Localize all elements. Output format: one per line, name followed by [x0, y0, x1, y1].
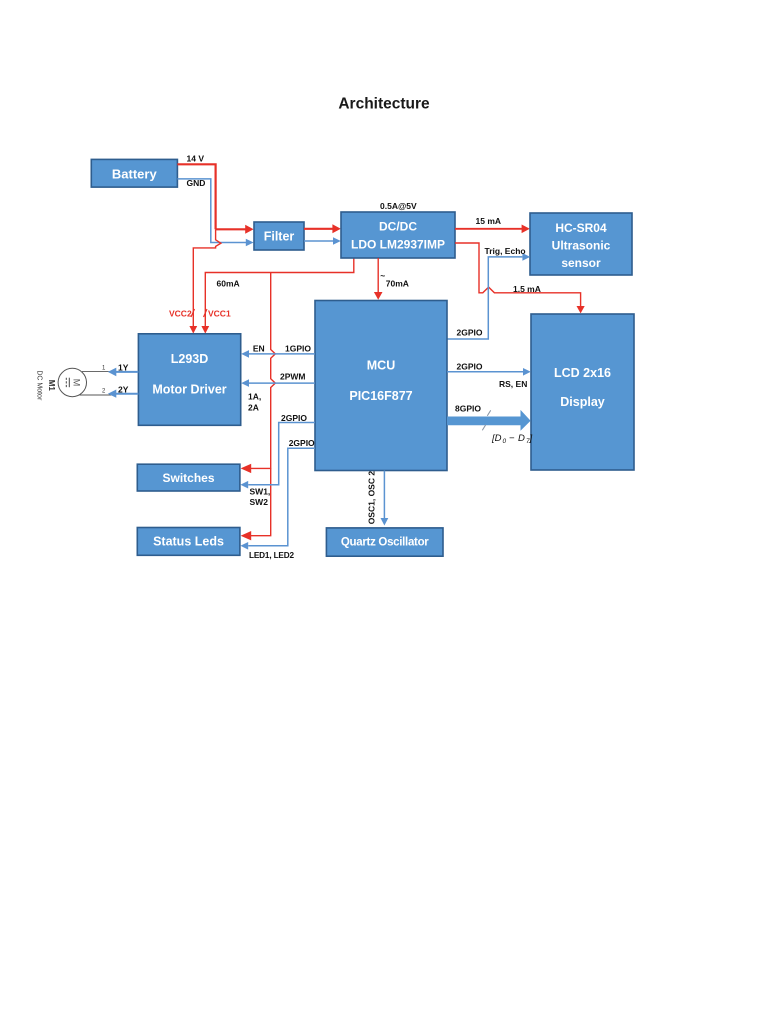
wire red filter to DC/DC — [304, 224, 341, 233]
svg-text:sensor: sensor — [561, 256, 601, 270]
wire blue filter to DC/DC — [304, 237, 341, 245]
wire motor lead 2 — [80, 394, 114, 396]
svg-text:Motor Driver: Motor Driver — [152, 383, 226, 397]
wire GND blue battery to filter — [177, 179, 253, 246]
svg-text:0.5A@5V: 0.5A@5V — [380, 201, 417, 211]
svg-text:Status Leds: Status Leds — [153, 535, 224, 549]
label D0-D7 — [491, 433, 533, 445]
svg-text:HC-SR04: HC-SR04 — [555, 221, 607, 235]
svg-text:L293D: L293D — [171, 352, 209, 366]
svg-text:2GPIO: 2GPIO — [457, 362, 483, 372]
svg-text:2PWM: 2PWM — [280, 372, 306, 382]
svg-text:[D: [D — [491, 433, 502, 444]
svg-text:Ultrasonic: Ultrasonic — [552, 239, 611, 253]
wire red ~70mA DC/DC to MCU — [374, 258, 383, 300]
svg-text:15 mA: 15 mA — [476, 216, 502, 226]
wire red 15mA DC/DC to HC-SR04 — [455, 225, 530, 234]
svg-text:M1: M1 — [47, 380, 56, 392]
svg-text:M: M — [72, 379, 82, 387]
MCU box — [315, 301, 447, 471]
svg-text:14 V: 14 V — [187, 154, 205, 164]
svg-text:Quartz Oscillator: Quartz Oscillator — [341, 536, 429, 548]
wire blue 2GPIO MCU to Switches — [240, 423, 315, 489]
DC/DC box — [341, 212, 455, 258]
svg-text:LCD 2x16: LCD 2x16 — [554, 366, 611, 380]
wire blue 1Y L293D to motor — [108, 368, 139, 377]
tick VCC1 — [204, 309, 208, 317]
svg-text:Switches: Switches — [162, 471, 214, 485]
svg-text:SW2: SW2 — [250, 497, 269, 507]
svg-text:2Y: 2Y — [118, 385, 129, 395]
L293D box — [138, 334, 240, 426]
HC-SR04 box — [530, 213, 632, 275]
svg-text:8GPIO: 8GPIO — [455, 404, 481, 414]
svg-text:70mA: 70mA — [386, 278, 409, 288]
wire 14V red battery to filter — [177, 164, 253, 234]
svg-text:]: ] — [529, 433, 533, 444]
svg-text:2GPIO: 2GPIO — [289, 438, 315, 448]
svg-text:2GPIO: 2GPIO — [457, 328, 483, 338]
wire red to switches and status leds (with hops) — [241, 273, 276, 541]
switches box — [137, 464, 240, 491]
wire blue 2Y L293D to motor — [108, 390, 139, 398]
quartz oscillator box — [326, 528, 443, 556]
svg-text:2GPIO: 2GPIO — [281, 413, 307, 423]
motor circle M1 — [58, 368, 86, 396]
svg-text:D: D — [518, 433, 525, 444]
svg-text:2A: 2A — [248, 403, 259, 413]
svg-text:Trig, Echo: Trig, Echo — [485, 246, 526, 256]
svg-text:DC/DC: DC/DC — [379, 220, 417, 234]
svg-text:1GPIO: 1GPIO — [285, 344, 311, 354]
bus arrow 8GPIO MCU to LCD — [447, 410, 531, 431]
svg-text:EN: EN — [253, 344, 265, 354]
svg-text:60mA: 60mA — [217, 279, 240, 289]
svg-text:DC Motor: DC Motor — [35, 370, 42, 401]
svg-text:MCU: MCU — [367, 359, 395, 373]
svg-text:VCC2: VCC2 — [169, 309, 192, 319]
wire red VCC1 + 60mA from DC/DC bottom — [201, 258, 353, 334]
wire blue 2GPIO MCU to Status Leds — [240, 448, 315, 549]
battery box — [91, 159, 177, 187]
svg-text:Display: Display — [560, 395, 605, 409]
svg-text:0: 0 — [503, 438, 507, 445]
svg-text:−: − — [509, 433, 515, 444]
svg-text:1A,: 1A, — [248, 392, 261, 402]
wire red VCC2 drop (with hop over GND) — [189, 229, 221, 333]
svg-text:PIC16F877: PIC16F877 — [349, 389, 412, 403]
wire blue EN MCU to L293D — [241, 350, 315, 358]
wire blue 2PWM MCU to L293D — [241, 379, 315, 387]
svg-text:Architecture: Architecture — [338, 96, 430, 113]
svg-text:Filter: Filter — [264, 230, 295, 244]
wire blue RS EN MCU to LCD — [447, 368, 531, 376]
wire red 1.5mA DC/DC to LCD (hop over blue) — [455, 243, 585, 313]
status leds box — [137, 528, 240, 556]
svg-text:SW1,: SW1, — [250, 487, 271, 497]
svg-text:LDO LM2937IMP: LDO LM2937IMP — [351, 238, 445, 252]
LCD box — [531, 314, 634, 470]
filter box — [254, 222, 304, 250]
svg-text:VCC1: VCC1 — [208, 309, 231, 319]
wire blue Trig Echo MCU to HC-SR04 — [447, 253, 530, 339]
svg-text:1.5 mA: 1.5 mA — [513, 284, 541, 294]
svg-text:Battery: Battery — [112, 166, 158, 181]
svg-text:~: ~ — [380, 271, 385, 281]
wire blue OSC MCU to quartz — [381, 471, 389, 526]
svg-text:1Y: 1Y — [118, 363, 129, 373]
svg-text:RS, EN: RS, EN — [499, 379, 527, 389]
svg-text:OSC1, OSC 2: OSC1, OSC 2 — [367, 471, 377, 525]
wire motor lead 1 — [82, 371, 113, 373]
svg-text:LED1, LED2: LED1, LED2 — [249, 551, 295, 560]
tick VCC2 — [191, 309, 195, 317]
